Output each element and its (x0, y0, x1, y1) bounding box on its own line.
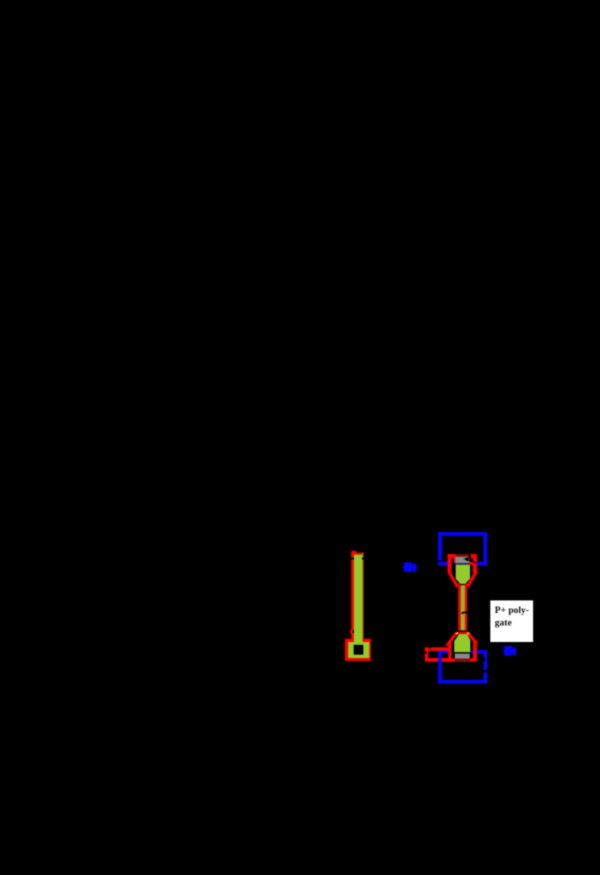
top metal rectangle (blue) (438, 532, 487, 566)
yellow transition patches (456, 632, 458, 634)
blue D+ marker bottom (503, 646, 517, 656)
poly bar top red cap (351, 553, 363, 555)
svg-text:P+ poly-: P+ poly- (495, 606, 529, 616)
red bracket bottom-left (447, 632, 457, 662)
red bracket top-left (448, 554, 458, 587)
blue left edge of bottom metal redrawn over red bottom bar (438, 651, 441, 684)
bottom contact: gray / maroon strip, black side gaps (453, 654, 472, 663)
green head top + taper (456, 565, 470, 585)
mid-left red tick (350, 630, 352, 634)
pointer line from label to gate neck (461, 612, 491, 617)
right edge inner notch (484, 658, 486, 661)
contact pad red ring (345, 639, 371, 661)
black arrow over top contact (464, 557, 477, 563)
white label box (490, 600, 533, 642)
poly bar left red edge (351, 553, 354, 639)
poly bar green body (354, 555, 363, 642)
red bracket top-right (468, 554, 477, 587)
top contact: maroon strip / gray / navy (455, 554, 470, 565)
contact hole black (354, 645, 364, 655)
black separator line neck top (460, 584, 466, 585)
poly bar right thin red edge (363, 553, 364, 639)
red implant extension C-shape at left of bottom (425, 647, 459, 662)
green bottom funnel (454, 634, 470, 652)
svg-text:gate: gate (495, 619, 512, 629)
red bracket bottom-right (467, 632, 477, 661)
bottom metal rectangle (blue) (438, 650, 488, 683)
black separator line neck bottom (458, 630, 467, 632)
right edge gap (483, 670, 488, 673)
notch black left (351, 558, 354, 560)
blue D+ marker top (403, 562, 418, 572)
poly bar top-left red tick (351, 551, 356, 553)
red expand line below neck with yellow tips (457, 632, 468, 634)
green neck core (461, 583, 465, 630)
red neck block (458, 583, 467, 631)
contact pad green (348, 642, 369, 658)
dark center line of gate (462, 586, 465, 631)
poly bar green overlapping pad top edge (354, 638, 363, 642)
notch black right (362, 558, 364, 560)
